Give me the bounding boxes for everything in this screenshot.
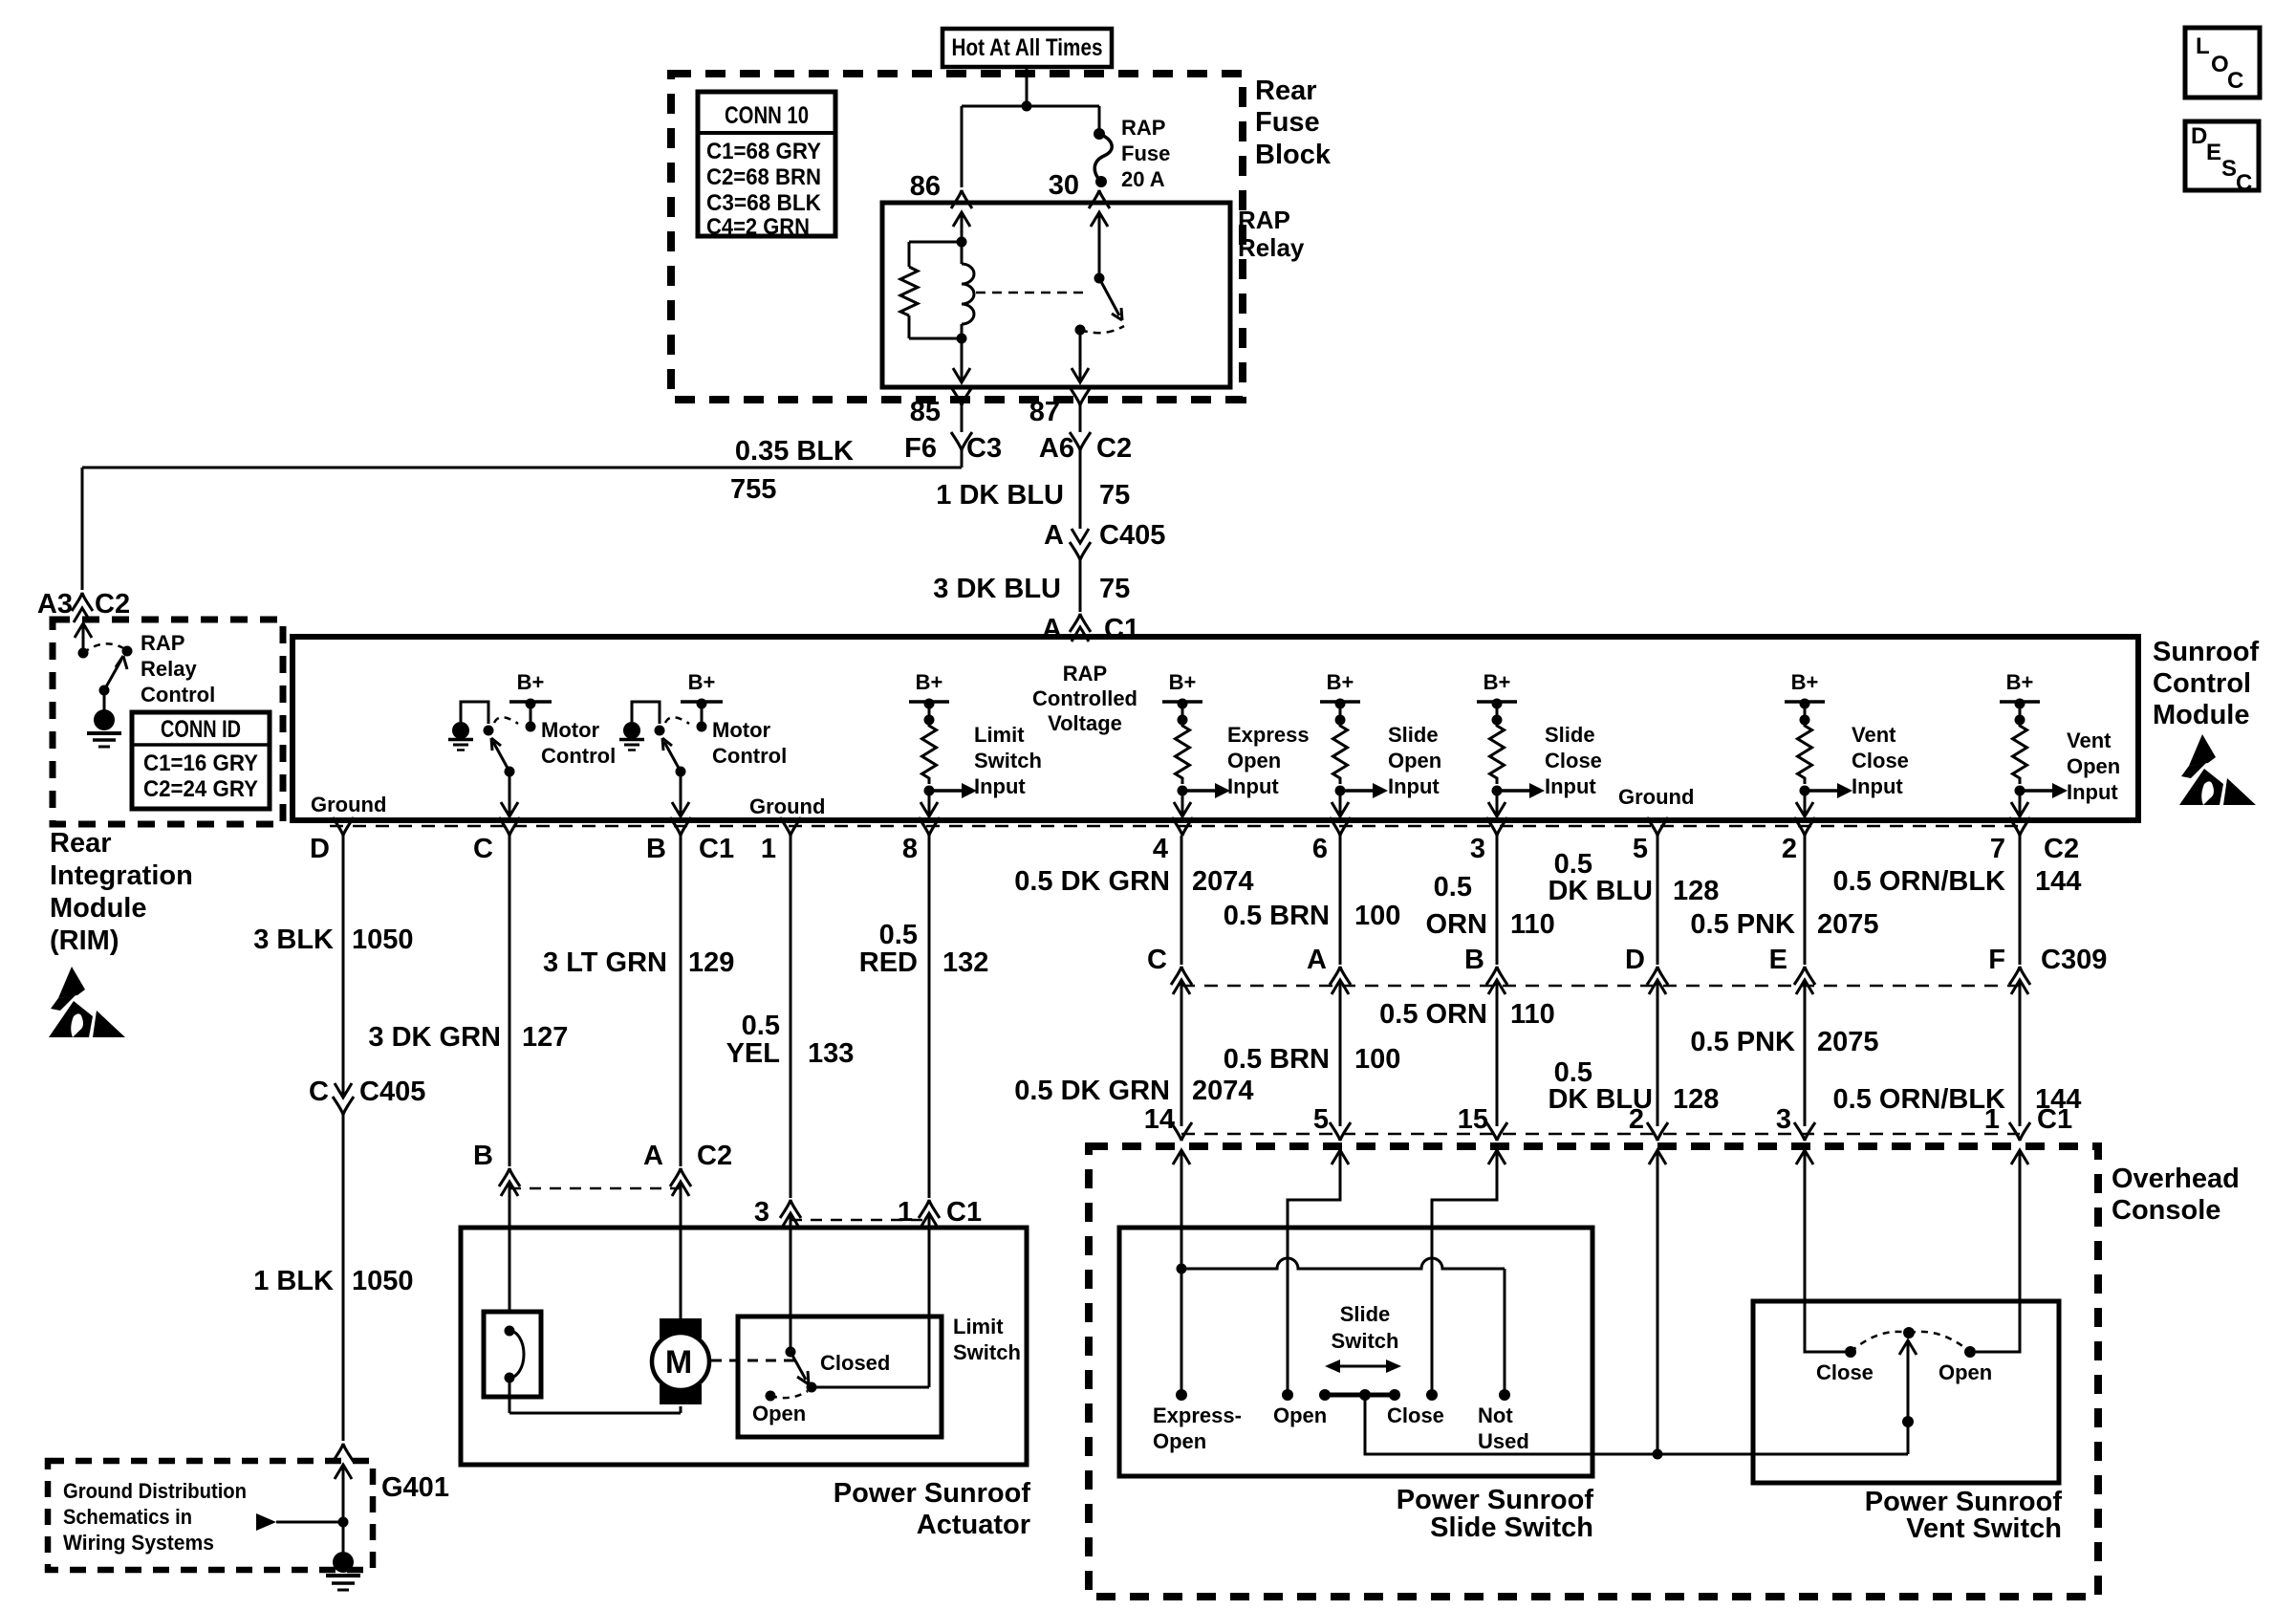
svg-text:Slide: Slide bbox=[1545, 723, 1595, 747]
svg-text:75: 75 bbox=[1099, 574, 1130, 604]
svg-text:Switch: Switch bbox=[974, 749, 1042, 772]
svg-text:B: B bbox=[1464, 945, 1484, 975]
svg-text:129: 129 bbox=[688, 947, 734, 978]
svg-text:Hot At All Times: Hot At All Times bbox=[952, 34, 1103, 61]
svg-text:755: 755 bbox=[730, 474, 776, 505]
svg-text:A3: A3 bbox=[37, 589, 73, 620]
svg-text:Open: Open bbox=[1939, 1360, 1992, 1384]
svg-text:4: 4 bbox=[1153, 834, 1168, 864]
svg-text:RAP: RAP bbox=[1238, 206, 1290, 234]
svg-text:C309: C309 bbox=[2041, 945, 2107, 975]
svg-text:87: 87 bbox=[1029, 397, 1060, 427]
svg-text:D: D bbox=[310, 834, 330, 864]
svg-text:3: 3 bbox=[754, 1197, 769, 1228]
svg-text:CONN ID: CONN ID bbox=[161, 716, 241, 743]
svg-text:0.5 DK GRN: 0.5 DK GRN bbox=[1014, 866, 1170, 897]
svg-text:0.5 PNK: 0.5 PNK bbox=[1690, 909, 1795, 940]
svg-text:3 DK GRN: 3 DK GRN bbox=[368, 1022, 501, 1053]
svg-text:Input: Input bbox=[1545, 774, 1596, 798]
svg-text:132: 132 bbox=[942, 947, 988, 978]
svg-text:C1: C1 bbox=[699, 834, 734, 864]
svg-text:C3: C3 bbox=[966, 433, 1002, 464]
svg-text:C405: C405 bbox=[359, 1077, 425, 1107]
svg-text:Control: Control bbox=[141, 683, 215, 707]
svg-text:C: C bbox=[309, 1077, 329, 1107]
svg-text:1 BLK: 1 BLK bbox=[253, 1266, 334, 1296]
svg-text:1050: 1050 bbox=[352, 1266, 414, 1296]
svg-text:Open: Open bbox=[1227, 749, 1281, 772]
svg-text:Rear: Rear bbox=[1255, 76, 1317, 106]
svg-text:14: 14 bbox=[1144, 1104, 1175, 1135]
svg-text:Block: Block bbox=[1255, 140, 1332, 170]
svg-text:B+: B+ bbox=[1327, 670, 1354, 694]
svg-text:Switch: Switch bbox=[953, 1340, 1021, 1364]
svg-text:M: M bbox=[665, 1344, 692, 1381]
svg-text:Input: Input bbox=[1227, 774, 1279, 798]
svg-text:3: 3 bbox=[1776, 1104, 1791, 1135]
svg-text:Vent Switch: Vent Switch bbox=[1906, 1513, 2062, 1544]
svg-text:RED: RED bbox=[859, 947, 918, 978]
svg-text:Control: Control bbox=[712, 744, 787, 768]
svg-text:Input: Input bbox=[974, 774, 1026, 798]
svg-text:2074: 2074 bbox=[1192, 1076, 1254, 1106]
svg-text:Relay: Relay bbox=[1238, 233, 1305, 262]
svg-text:B+: B+ bbox=[1169, 670, 1197, 694]
svg-text:Rear: Rear bbox=[50, 828, 112, 859]
svg-text:B+: B+ bbox=[1484, 670, 1511, 694]
svg-text:A: A bbox=[1042, 614, 1062, 644]
svg-text:C405: C405 bbox=[1099, 520, 1165, 551]
svg-text:7: 7 bbox=[1990, 834, 2005, 864]
svg-text:S: S bbox=[2221, 156, 2237, 182]
svg-text:Not: Not bbox=[1478, 1403, 1513, 1427]
svg-text:100: 100 bbox=[1354, 1044, 1400, 1075]
svg-text:Open: Open bbox=[2067, 754, 2120, 778]
svg-text:Voltage: Voltage bbox=[1048, 711, 1122, 735]
svg-text:Slide Switch: Slide Switch bbox=[1430, 1512, 1593, 1543]
svg-text:E: E bbox=[2206, 140, 2221, 165]
svg-text:D: D bbox=[1625, 945, 1645, 975]
svg-text:C2=24 GRY: C2=24 GRY bbox=[143, 776, 258, 802]
svg-text:Slide: Slide bbox=[1388, 723, 1439, 747]
svg-text:3 DK BLU: 3 DK BLU bbox=[933, 574, 1061, 604]
svg-text:Wiring Systems: Wiring Systems bbox=[63, 1531, 214, 1555]
svg-text:5: 5 bbox=[1313, 1104, 1329, 1135]
svg-text:Vent: Vent bbox=[2067, 729, 2112, 752]
svg-text:6: 6 bbox=[1312, 834, 1328, 864]
svg-text:Ground: Ground bbox=[749, 794, 825, 818]
svg-text:Schematics in: Schematics in bbox=[63, 1505, 192, 1529]
svg-text:Express-: Express- bbox=[1153, 1403, 1242, 1427]
svg-text:Fuse: Fuse bbox=[1255, 107, 1320, 138]
svg-text:Limit: Limit bbox=[974, 723, 1025, 747]
svg-text:D: D bbox=[2191, 123, 2207, 149]
svg-text:C: C bbox=[2236, 170, 2252, 196]
svg-text:2: 2 bbox=[1629, 1104, 1644, 1135]
svg-text:ORN: ORN bbox=[1426, 909, 1487, 940]
svg-text:C: C bbox=[473, 834, 493, 864]
svg-text:Close: Close bbox=[1852, 749, 1909, 772]
svg-text:Slide: Slide bbox=[1340, 1302, 1391, 1326]
svg-text:Open: Open bbox=[1153, 1429, 1206, 1453]
svg-text:0.5 ORN: 0.5 ORN bbox=[1379, 999, 1487, 1030]
svg-text:0.5 DK GRN: 0.5 DK GRN bbox=[1014, 1076, 1170, 1106]
svg-text:A6: A6 bbox=[1039, 433, 1074, 464]
svg-text:Open: Open bbox=[752, 1402, 806, 1425]
svg-text:C1=68 GRY: C1=68 GRY bbox=[706, 139, 821, 164]
svg-text:C1=16 GRY: C1=16 GRY bbox=[143, 751, 258, 776]
svg-text:Used: Used bbox=[1478, 1429, 1529, 1453]
svg-text:1050: 1050 bbox=[352, 925, 414, 955]
svg-text:A: A bbox=[643, 1141, 663, 1171]
svg-text:Integration: Integration bbox=[50, 860, 193, 891]
svg-text:Express: Express bbox=[1227, 723, 1310, 747]
svg-text:CONN 10: CONN 10 bbox=[725, 102, 809, 129]
svg-text:Open: Open bbox=[1273, 1403, 1327, 1427]
svg-text:1: 1 bbox=[1984, 1104, 2000, 1135]
svg-text:0.5: 0.5 bbox=[1434, 872, 1472, 903]
svg-text:3: 3 bbox=[1470, 834, 1485, 864]
svg-text:Close: Close bbox=[1387, 1403, 1444, 1427]
svg-text:1: 1 bbox=[898, 1197, 913, 1228]
svg-text:Module: Module bbox=[50, 893, 147, 924]
svg-text:86: 86 bbox=[910, 171, 941, 202]
svg-text:Overhead: Overhead bbox=[2112, 1164, 2240, 1194]
svg-text:2075: 2075 bbox=[1817, 909, 1879, 940]
svg-text:Vent: Vent bbox=[1852, 723, 1896, 747]
svg-text:3 LT GRN: 3 LT GRN bbox=[543, 947, 667, 978]
svg-text:2: 2 bbox=[1782, 834, 1797, 864]
svg-text:(RIM): (RIM) bbox=[50, 925, 119, 956]
svg-text:C2: C2 bbox=[697, 1141, 732, 1171]
svg-text:L: L bbox=[2196, 33, 2210, 59]
svg-text:Ground Distribution: Ground Distribution bbox=[63, 1479, 247, 1503]
svg-text:F6: F6 bbox=[904, 433, 937, 464]
svg-text:0.5 ORN/BLK: 0.5 ORN/BLK bbox=[1833, 866, 2006, 897]
svg-text:C1: C1 bbox=[2037, 1104, 2072, 1135]
svg-text:0.5 BRN: 0.5 BRN bbox=[1224, 901, 1330, 931]
svg-text:B+: B+ bbox=[916, 670, 943, 694]
svg-text:C1: C1 bbox=[946, 1197, 982, 1228]
svg-text:5: 5 bbox=[1633, 834, 1648, 864]
svg-text:30: 30 bbox=[1049, 170, 1079, 201]
svg-text:C1: C1 bbox=[1104, 614, 1139, 644]
svg-text:Console: Console bbox=[2112, 1195, 2220, 1226]
svg-text:A: A bbox=[1044, 520, 1064, 551]
svg-text:O: O bbox=[2211, 52, 2229, 77]
svg-text:G401: G401 bbox=[381, 1472, 449, 1503]
svg-text:0.35 BLK: 0.35 BLK bbox=[735, 436, 854, 467]
svg-text:Open: Open bbox=[1388, 749, 1441, 772]
svg-text:75: 75 bbox=[1099, 480, 1130, 511]
svg-text:RAP: RAP bbox=[1063, 662, 1107, 685]
svg-text:RAP: RAP bbox=[141, 631, 184, 655]
svg-text:C: C bbox=[1147, 945, 1167, 975]
svg-text:Input: Input bbox=[2067, 780, 2118, 804]
svg-text:0.5: 0.5 bbox=[742, 1011, 780, 1041]
svg-text:Ground: Ground bbox=[1618, 785, 1694, 809]
svg-text:C: C bbox=[2227, 68, 2243, 94]
svg-text:20 A: 20 A bbox=[1121, 167, 1165, 191]
svg-text:Input: Input bbox=[1852, 774, 1903, 798]
svg-text:C4=2 GRN: C4=2 GRN bbox=[706, 214, 810, 240]
svg-text:110: 110 bbox=[1510, 999, 1555, 1030]
svg-text:C2: C2 bbox=[95, 589, 130, 620]
svg-text:Input: Input bbox=[1388, 774, 1440, 798]
svg-text:0.5 ORN/BLK: 0.5 ORN/BLK bbox=[1833, 1084, 2006, 1115]
svg-text:110: 110 bbox=[1510, 909, 1555, 940]
svg-text:C2: C2 bbox=[1096, 433, 1132, 464]
svg-text:0.5 BRN: 0.5 BRN bbox=[1224, 1044, 1330, 1075]
svg-text:85: 85 bbox=[910, 397, 941, 427]
svg-text:Module: Module bbox=[2153, 700, 2250, 730]
svg-text:2075: 2075 bbox=[1817, 1027, 1879, 1057]
svg-text:127: 127 bbox=[522, 1022, 568, 1053]
svg-text:Control: Control bbox=[541, 744, 616, 768]
svg-text:Sunroof: Sunroof bbox=[2153, 637, 2259, 667]
svg-text:144: 144 bbox=[2035, 866, 2081, 897]
svg-text:E: E bbox=[1769, 945, 1787, 975]
svg-text:Motor: Motor bbox=[541, 718, 600, 742]
svg-text:B+: B+ bbox=[2006, 670, 2034, 694]
svg-text:DK BLU: DK BLU bbox=[1548, 876, 1653, 906]
svg-text:Motor: Motor bbox=[712, 718, 771, 742]
svg-text:RAP: RAP bbox=[1121, 116, 1165, 140]
svg-text:1: 1 bbox=[761, 834, 776, 864]
svg-text:B: B bbox=[473, 1141, 493, 1171]
svg-text:133: 133 bbox=[808, 1038, 854, 1069]
svg-text:Close: Close bbox=[1545, 749, 1602, 772]
svg-text:Limit: Limit bbox=[953, 1315, 1004, 1338]
svg-text:2074: 2074 bbox=[1192, 866, 1254, 897]
svg-text:Controlled: Controlled bbox=[1032, 686, 1137, 710]
svg-text:Fuse: Fuse bbox=[1121, 141, 1170, 165]
svg-text:C3=68 BLK: C3=68 BLK bbox=[706, 190, 822, 216]
svg-text:C2: C2 bbox=[2044, 834, 2079, 864]
svg-text:B+: B+ bbox=[517, 670, 545, 694]
svg-text:Closed: Closed bbox=[820, 1351, 890, 1375]
svg-text:C2=68 BRN: C2=68 BRN bbox=[706, 164, 821, 190]
svg-text:15: 15 bbox=[1458, 1104, 1488, 1135]
svg-text:B+: B+ bbox=[688, 670, 716, 694]
svg-text:Relay: Relay bbox=[141, 657, 197, 681]
svg-text:Ground: Ground bbox=[311, 793, 386, 816]
svg-text:128: 128 bbox=[1673, 1084, 1719, 1115]
svg-text:100: 100 bbox=[1354, 901, 1400, 931]
svg-text:0.5 PNK: 0.5 PNK bbox=[1690, 1027, 1795, 1057]
svg-text:3 BLK: 3 BLK bbox=[253, 925, 334, 955]
svg-text:Power Sunroof: Power Sunroof bbox=[1397, 1485, 1594, 1515]
svg-text:Actuator: Actuator bbox=[917, 1510, 1030, 1540]
svg-text:YEL: YEL bbox=[726, 1038, 780, 1069]
svg-text:B+: B+ bbox=[1791, 670, 1819, 694]
svg-text:Power Sunroof: Power Sunroof bbox=[834, 1478, 1031, 1509]
svg-text:B: B bbox=[646, 834, 666, 864]
svg-text:0.5: 0.5 bbox=[879, 920, 918, 950]
svg-text:Switch: Switch bbox=[1332, 1329, 1399, 1353]
svg-text:1 DK BLU: 1 DK BLU bbox=[936, 480, 1064, 511]
svg-text:8: 8 bbox=[902, 834, 918, 864]
svg-text:F: F bbox=[1988, 945, 2005, 975]
svg-text:A: A bbox=[1307, 945, 1327, 975]
svg-text:Close: Close bbox=[1816, 1360, 1874, 1384]
svg-text:Control: Control bbox=[2153, 668, 2251, 699]
svg-text:128: 128 bbox=[1673, 876, 1719, 906]
